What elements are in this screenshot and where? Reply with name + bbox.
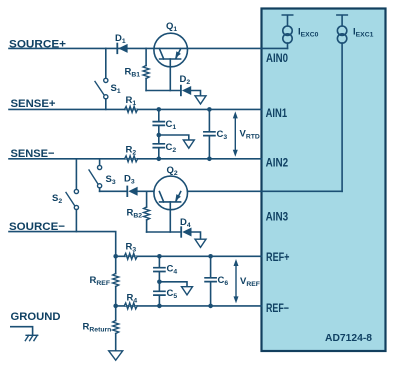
wire IEXC1 down — [341, 43, 343, 191]
resistor R2 — [125, 156, 138, 162]
current source IEXC0 — [282, 15, 292, 43]
wire base rail Q1 — [146, 90, 181, 92]
capacitor C3 — [204, 109, 215, 158]
capacitor C6 — [205, 256, 216, 306]
switch S1 — [95, 48, 108, 109]
transistor Q1 — [154, 33, 188, 90]
junction node C5 bottom — [157, 304, 162, 309]
svg-text:SOURCE−: SOURCE− — [9, 221, 65, 233]
junction node C6 top — [208, 254, 213, 259]
switch S3 — [89, 159, 102, 192]
svg-text:D3: D3 — [124, 174, 135, 186]
wire AIN0 riser to IEXC0 — [287, 43, 289, 48]
diode D3 — [127, 187, 153, 197]
svg-text:SENSE+: SENSE+ — [11, 98, 56, 110]
wire REF+ rail — [116, 255, 262, 257]
junction node RREF bottom — [113, 304, 118, 309]
svg-text:RB1: RB1 — [125, 67, 141, 79]
svg-text:Q1: Q1 — [166, 21, 177, 33]
wire SOURCE+ to AIN0 — [9, 47, 288, 49]
ground (RReturn) — [109, 351, 123, 360]
ground (D4) — [195, 239, 206, 247]
resistor RReturn — [113, 306, 119, 351]
junction node RREF top — [113, 254, 118, 259]
junction node C4 top — [157, 254, 162, 259]
wire SOURCE- — [9, 232, 116, 257]
switch S2 — [66, 159, 79, 232]
svg-text:S1: S1 — [111, 83, 121, 95]
wire REF- rail — [116, 305, 262, 307]
svg-text:D4: D4 — [180, 217, 191, 229]
svg-text:C2: C2 — [166, 142, 177, 154]
svg-text:D1: D1 — [115, 33, 126, 45]
wire IEXC1 to Q2 collector — [188, 190, 342, 192]
resistor RB1 — [143, 48, 149, 90]
svg-text:R2: R2 — [126, 145, 137, 157]
wire S3 to Q2 — [100, 190, 127, 192]
svg-text:GROUND: GROUND — [11, 311, 61, 323]
wire D2 to ground — [191, 91, 200, 96]
svg-text:AIN0: AIN0 — [266, 51, 288, 65]
svg-text:R1: R1 — [126, 95, 137, 107]
arrow VRTD — [233, 111, 238, 156]
diode D2 — [181, 86, 191, 96]
svg-text:RB2: RB2 — [127, 208, 143, 220]
ground (D2) — [195, 96, 206, 104]
junction node C2 bottom — [157, 157, 162, 162]
wire D4 to ground — [192, 232, 201, 239]
svg-text:S3: S3 — [106, 174, 116, 186]
capacitor C1 — [153, 109, 164, 135]
wire C1/C2 mid to ground — [159, 135, 189, 140]
capacitor C2 — [153, 135, 164, 159]
wire C4/C5 mid to ground — [159, 282, 187, 287]
resistor RB2 — [144, 191, 150, 232]
svg-text:VREF: VREF — [240, 276, 260, 288]
transistor Q2 — [154, 176, 188, 232]
wire SENSE- to AIN2 — [9, 158, 262, 160]
svg-text:R3: R3 — [126, 242, 137, 254]
wire SENSE+ to AIN1 — [9, 108, 262, 110]
junction node C1/C2 mid — [157, 133, 162, 138]
junction node R1/C1 — [157, 107, 162, 112]
diode D4 — [181, 227, 191, 237]
svg-text:S2: S2 — [52, 193, 62, 205]
svg-text:C1: C1 — [166, 119, 177, 131]
wire base rail Q2 — [147, 231, 182, 233]
capacitor C4 — [154, 256, 165, 282]
svg-text:C6: C6 — [218, 275, 229, 287]
svg-text:AIN2: AIN2 — [266, 156, 289, 170]
svg-text:SOURCE+: SOURCE+ — [9, 39, 66, 51]
svg-text:C5: C5 — [167, 288, 178, 300]
resistor R1 — [125, 106, 138, 112]
diode D1 — [117, 44, 127, 54]
svg-text:REF−: REF− — [266, 301, 289, 315]
resistor RREF — [113, 256, 119, 306]
svg-text:RREF: RREF — [90, 275, 110, 287]
svg-text:VRTD: VRTD — [240, 129, 260, 141]
junction node C6 bottom — [208, 304, 213, 309]
svg-text:R4: R4 — [127, 293, 138, 305]
junction node C3 top — [207, 107, 212, 112]
current source IEXC1 — [337, 15, 347, 43]
svg-text:C4: C4 — [167, 264, 178, 276]
ground (C1/C2) — [183, 140, 194, 148]
svg-text:Q2: Q2 — [167, 165, 178, 177]
capacitor C5 — [154, 282, 165, 306]
junction node C3 bottom — [207, 157, 212, 162]
svg-text:C3: C3 — [217, 129, 228, 141]
svg-text:REF+: REF+ — [266, 250, 290, 264]
ground (C4/C5) — [182, 287, 193, 295]
junction node C4/C5 mid — [157, 280, 162, 285]
svg-text:SENSE−: SENSE− — [11, 148, 55, 160]
svg-text:AIN1: AIN1 — [266, 106, 288, 120]
svg-text:AIN3: AIN3 — [266, 210, 289, 224]
resistor R3 — [124, 253, 137, 259]
resistor R4 — [124, 303, 137, 309]
svg-text:AD7124-8: AD7124-8 — [325, 333, 372, 344]
svg-text:RReturn: RReturn — [83, 322, 112, 334]
svg-text:D2: D2 — [180, 74, 191, 86]
AD7124-8 block — [262, 9, 386, 352]
arrow VREF — [234, 259, 239, 303]
GROUND chassis symbol — [11, 327, 38, 341]
